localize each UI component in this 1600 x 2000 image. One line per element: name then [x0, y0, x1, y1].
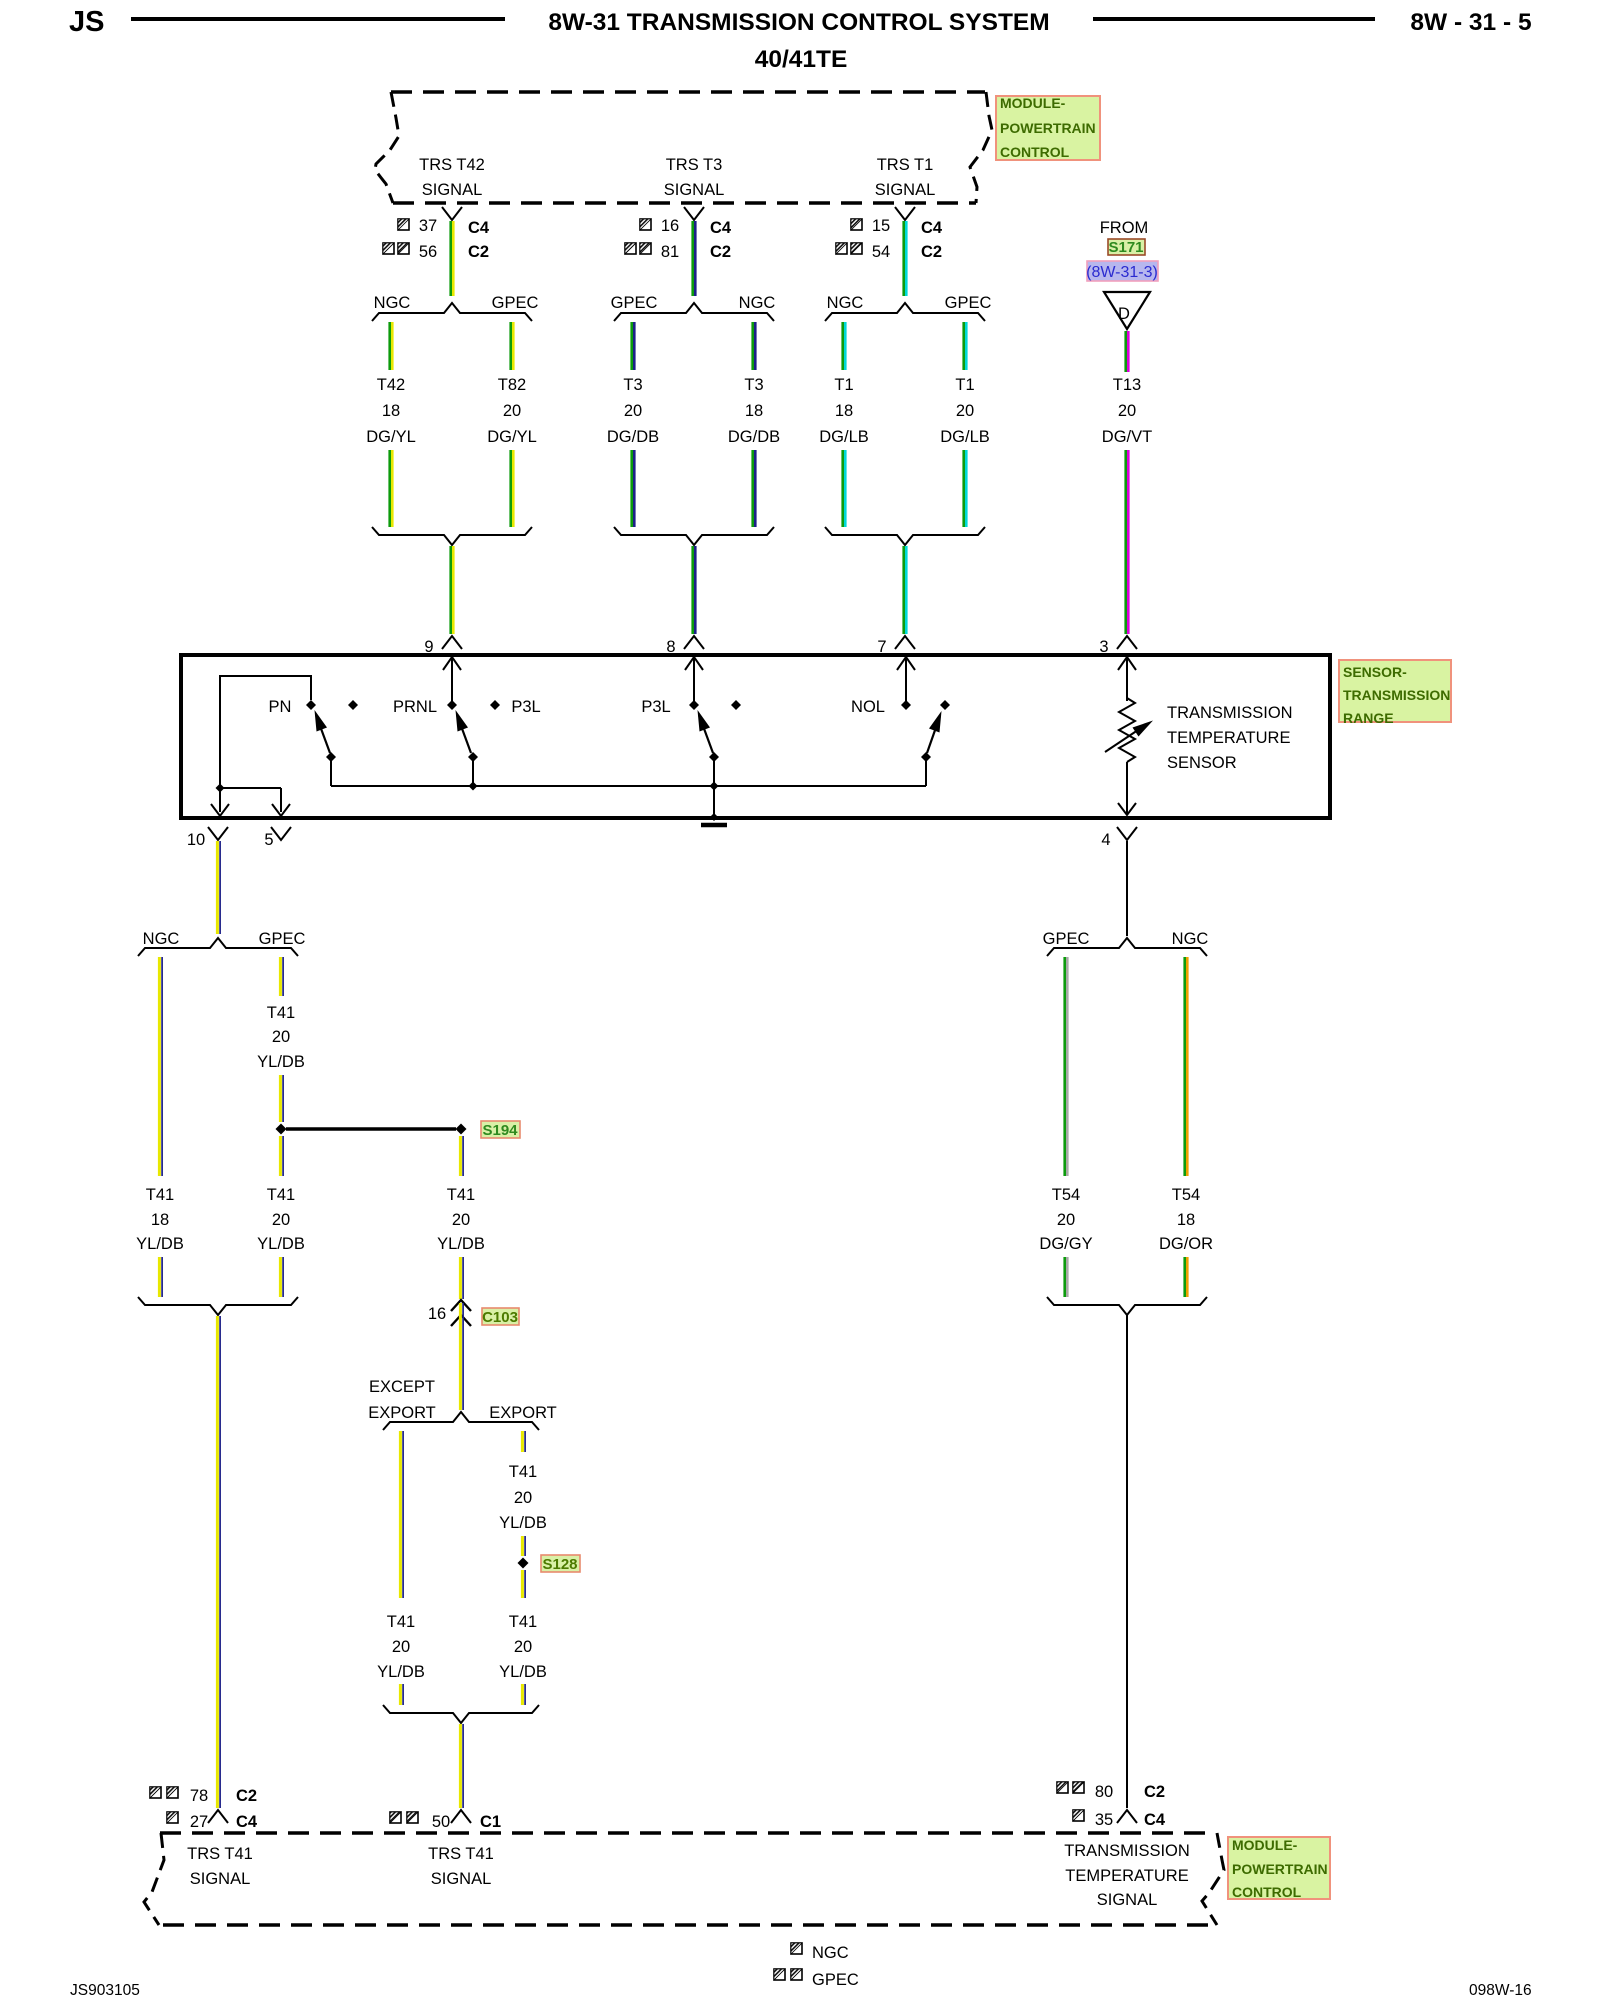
switch PN	[269, 698, 336, 786]
svg-text:DG/OR: DG/OR	[1159, 1235, 1213, 1253]
pin 37 C4 connector	[398, 207, 490, 237]
svg-text:C4: C4	[710, 219, 732, 237]
svg-text:GPEC: GPEC	[945, 294, 992, 312]
svg-text:S128: S128	[542, 1556, 577, 1573]
node junction diamond at exit split	[216, 784, 225, 793]
value label T41 20 YL/DB	[257, 1186, 305, 1253]
svg-text:P3L: P3L	[641, 698, 670, 716]
value label T41 18 YL/DB	[136, 1186, 184, 1253]
svg-text:D: D	[1118, 305, 1130, 323]
svg-text:T41: T41	[447, 1186, 475, 1204]
wire to sensor pin 7	[904, 546, 907, 634]
svg-text:SENSOR: SENSOR	[1167, 754, 1237, 772]
svg-text:DG/YL: DG/YL	[366, 428, 416, 446]
svg-text:T3: T3	[623, 376, 642, 394]
svg-text:T41: T41	[267, 1186, 295, 1204]
wire GPEC lower stub	[280, 1257, 283, 1297]
value label T13 20 DG/VT	[1102, 376, 1152, 446]
pin 78 C2 connector	[150, 1787, 257, 1805]
wire T1 18 DG/LB lower	[843, 450, 846, 527]
node merge brace column TRS T1	[825, 527, 985, 545]
pin 54 C2 connector	[836, 243, 942, 261]
wire T13 20 DG/VT upper	[1126, 331, 1129, 372]
svg-text:S171: S171	[1108, 239, 1143, 256]
svg-text:TRS T41: TRS T41	[187, 1845, 253, 1863]
svg-text:TRS T41: TRS T41	[428, 1845, 494, 1863]
svg-text:JS903105: JS903105	[70, 1982, 140, 1999]
svg-text:GPEC: GPEC	[259, 930, 306, 948]
wire T42 18 DG/YL upper	[390, 322, 393, 370]
value label T41 20 YL/DB (S194 branch)	[437, 1186, 485, 1253]
wire below S194 left branch	[280, 1136, 283, 1176]
connector C103 pin 16	[428, 1300, 519, 1326]
wire TRS T42 stem	[451, 221, 454, 296]
wire S194 right branch	[460, 1136, 463, 1176]
svg-text:DG/DB: DG/DB	[607, 428, 659, 446]
pin 8 sensor connector	[666, 636, 704, 656]
node (8W-31-3) reference	[1086, 261, 1158, 281]
node TRS T41 SIGNAL (left)	[187, 1845, 253, 1888]
node PN alternate contact	[348, 700, 358, 710]
wire except-export stub	[400, 1684, 403, 1705]
node split brace NGC/GPEC	[372, 294, 538, 321]
pin 50 C1 connector	[390, 1810, 501, 1831]
svg-text:20: 20	[1118, 402, 1136, 420]
svg-text:DG/YL: DG/YL	[487, 428, 537, 446]
svg-text:T41: T41	[267, 1004, 295, 1022]
wire T3 18 DG/DB upper	[753, 322, 756, 370]
wire DG/OR stub	[1185, 1257, 1188, 1297]
svg-text:C2: C2	[710, 243, 731, 261]
wire pin4 to GPEC/NGC split	[1126, 841, 1128, 936]
svg-text:8W - 31 - 5: 8W - 31 - 5	[1410, 9, 1531, 36]
svg-text:TRS T3: TRS T3	[666, 156, 723, 174]
label MODULE-POWERTRAIN CONTROL (bottom)	[1228, 1837, 1330, 1900]
svg-text:PN: PN	[269, 698, 292, 716]
wire below S128	[522, 1570, 525, 1598]
svg-text:20: 20	[514, 1638, 532, 1656]
node split brace NGC/GPEC (left)	[138, 930, 305, 956]
svg-text:C4: C4	[921, 219, 943, 237]
svg-text:TRS T42: TRS T42	[419, 156, 485, 174]
svg-text:SIGNAL: SIGNAL	[190, 1870, 251, 1888]
svg-text:MODULE-: MODULE-	[1000, 95, 1066, 111]
svg-text:YL/DB: YL/DB	[257, 1053, 305, 1071]
svg-text:20: 20	[624, 402, 642, 420]
svg-text:20: 20	[503, 402, 521, 420]
svg-text:T54: T54	[1052, 1186, 1080, 1204]
wire TRS T1 stem	[904, 221, 907, 296]
pin 4 connector	[1101, 827, 1137, 849]
node TRS T1 SIGNAL label	[875, 156, 936, 199]
node split brace EXCEPT EXPORT / EXPORT	[368, 1378, 557, 1430]
svg-text:NGC: NGC	[739, 294, 776, 312]
switch PRNL (pin 9)	[393, 657, 478, 791]
svg-text:TEMPERATURE: TEMPERATURE	[1167, 729, 1290, 747]
svg-text:16: 16	[661, 217, 679, 235]
wire NGC lower stub	[159, 1257, 162, 1297]
svg-text:GPEC: GPEC	[611, 294, 658, 312]
svg-text:15: 15	[872, 217, 890, 235]
svg-text:T41: T41	[146, 1186, 174, 1204]
wire T54 18 DG/OR long	[1185, 957, 1188, 1176]
splice S194	[276, 1121, 521, 1139]
svg-text:C2: C2	[236, 1787, 257, 1805]
wire C103 to export split	[460, 1303, 463, 1410]
svg-text:DG/VT: DG/VT	[1102, 428, 1152, 446]
svg-text:YL/DB: YL/DB	[377, 1663, 425, 1681]
value label T1 18 DG/LB	[819, 376, 869, 446]
node TRANSMISSION TEMPERATURE SIGNAL	[1064, 1842, 1190, 1909]
svg-text:YL/DB: YL/DB	[499, 1514, 547, 1532]
svg-text:GPEC: GPEC	[812, 1971, 859, 1989]
svg-text:T1: T1	[955, 376, 974, 394]
svg-text:POWERTRAIN: POWERTRAIN	[1232, 1861, 1328, 1877]
pin 81 C2 connector	[625, 243, 731, 261]
svg-text:MODULE-: MODULE-	[1232, 1837, 1298, 1853]
wire T1 18 DG/LB upper	[843, 322, 846, 370]
svg-text:C2: C2	[1144, 1783, 1165, 1801]
svg-text:56: 56	[419, 243, 437, 261]
svg-text:C103: C103	[482, 1309, 518, 1326]
svg-text:10: 10	[187, 831, 205, 849]
node merge brace column TRS T42	[372, 527, 532, 545]
svg-text:T82: T82	[498, 376, 526, 394]
svg-text:18: 18	[1177, 1211, 1195, 1229]
module-powertrain control (top) dashed outline	[375, 92, 992, 203]
svg-text:T41: T41	[509, 1613, 537, 1631]
splice S128	[518, 1555, 581, 1573]
svg-text:EXPORT: EXPORT	[368, 1404, 436, 1422]
node P3L alternate contact	[731, 700, 741, 710]
svg-text:20: 20	[392, 1638, 410, 1656]
node TRS T41 SIGNAL (middle)	[428, 1845, 494, 1888]
svg-text:SIGNAL: SIGNAL	[875, 181, 936, 199]
svg-text:35: 35	[1095, 1811, 1113, 1829]
value label T54 20 DG/GY	[1039, 1186, 1092, 1253]
svg-text:20: 20	[452, 1211, 470, 1229]
svg-text:EXPORT: EXPORT	[489, 1404, 557, 1422]
svg-text:SENSOR-: SENSOR-	[1343, 664, 1407, 680]
legend NGC connector key	[791, 1943, 849, 1962]
wire T42 18 DG/YL lower	[390, 450, 393, 527]
node D triangle off-page connector	[1104, 292, 1150, 329]
svg-text:T13: T13	[1113, 376, 1141, 394]
wire export to splice S128	[522, 1536, 525, 1556]
wire T3 20 DG/DB lower	[632, 450, 635, 527]
pin 80 C2 connector	[1057, 1782, 1165, 1801]
svg-text:SIGNAL: SIGNAL	[1097, 1891, 1158, 1909]
wire TRS T41 signal to pin 50	[460, 1724, 463, 1808]
pin 35 C4 connector	[1073, 1810, 1166, 1829]
svg-text:SIGNAL: SIGNAL	[422, 181, 483, 199]
svg-text:C1: C1	[480, 1813, 501, 1831]
wire T54 20 DG/GY long	[1065, 957, 1068, 1176]
svg-text:NGC: NGC	[374, 294, 411, 312]
svg-text:50: 50	[432, 1813, 450, 1831]
svg-text:20: 20	[956, 402, 974, 420]
svg-text:C2: C2	[468, 243, 489, 261]
svg-text:20: 20	[272, 1211, 290, 1229]
svg-text:RANGE: RANGE	[1343, 710, 1394, 726]
label TRANSMISSION TEMPERATURE SENSOR	[1167, 704, 1293, 772]
exit arrows to pins 10 and 5	[211, 788, 290, 816]
svg-text:54: 54	[872, 243, 890, 261]
wire export stub	[522, 1684, 525, 1705]
wire temperature signal to pin 35	[1126, 1315, 1128, 1808]
wire T3 18 DG/DB lower	[753, 450, 756, 527]
node merge brace column TRS T3	[614, 527, 774, 545]
wire T41 18 YL/DB (NGC) long	[159, 957, 162, 1176]
svg-text:TRS T1: TRS T1	[877, 156, 934, 174]
node split brace NGC/GPEC	[825, 294, 991, 321]
svg-text:T41: T41	[509, 1463, 537, 1481]
pin 56 C2 connector	[383, 243, 489, 261]
node FROM S171 reference	[1100, 219, 1149, 256]
svg-text:NGC: NGC	[143, 930, 180, 948]
svg-text:18: 18	[382, 402, 400, 420]
switch P3L (pin 8)	[641, 657, 719, 791]
svg-text:TEMPERATURE: TEMPERATURE	[1065, 1867, 1188, 1885]
value label T3 18 DG/DB	[728, 376, 780, 446]
svg-text:16: 16	[428, 1305, 446, 1323]
wire TRS T41 signal to pin 27	[217, 1316, 220, 1808]
svg-text:80: 80	[1095, 1783, 1113, 1801]
svg-text:YL/DB: YL/DB	[437, 1235, 485, 1253]
wire DG/GY stub	[1065, 1257, 1068, 1297]
node P3L contact label/diamond	[490, 698, 541, 716]
svg-text:TRANSMISSION: TRANSMISSION	[1167, 704, 1293, 722]
svg-text:YL/DB: YL/DB	[257, 1235, 305, 1253]
header rule left	[131, 17, 505, 21]
svg-text:T42: T42	[377, 376, 405, 394]
pin 5 connector	[264, 827, 291, 849]
wire TRS T3 stem	[693, 221, 696, 296]
node merge brace (left group)	[138, 1297, 298, 1315]
wire GPEC T41 to splice S194	[280, 1075, 283, 1122]
node merge brace (export group)	[383, 1705, 539, 1723]
svg-text:20: 20	[272, 1028, 290, 1046]
value label T54 18 DG/OR	[1159, 1186, 1213, 1253]
wire to sensor pin 8	[693, 546, 696, 634]
svg-text:FROM: FROM	[1100, 219, 1149, 237]
svg-text:P3L: P3L	[511, 698, 540, 716]
wire common bus	[331, 785, 926, 787]
sensor-transmission range box outline	[181, 655, 1330, 818]
svg-text:18: 18	[151, 1211, 169, 1229]
value label T1 20 DG/LB	[940, 376, 990, 446]
value label T82 20 DG/YL	[487, 376, 537, 446]
svg-text:T3: T3	[744, 376, 763, 394]
svg-text:81: 81	[661, 243, 679, 261]
wire PN contact feed (rectangle path)	[220, 676, 311, 788]
wire to sensor pin 9	[451, 546, 454, 634]
node split brace GPEC/NGC	[611, 294, 776, 321]
svg-text:NGC: NGC	[827, 294, 864, 312]
svg-text:NGC: NGC	[812, 1944, 849, 1962]
svg-text:PRNL: PRNL	[393, 698, 437, 716]
node merge brace (right group)	[1047, 1297, 1207, 1315]
node TRS T3 SIGNAL label	[664, 156, 725, 199]
svg-text:DG/GY: DG/GY	[1039, 1235, 1092, 1253]
ground case ground stub	[701, 786, 727, 825]
value label T41 20 YL/DB (GPEC)	[257, 1004, 305, 1071]
wire to connector C103	[460, 1257, 463, 1299]
svg-text:8W-31 TRANSMISSION CONTROL SYS: 8W-31 TRANSMISSION CONTROL SYSTEM	[548, 9, 1049, 36]
svg-text:SIGNAL: SIGNAL	[664, 181, 725, 199]
svg-text:78: 78	[190, 1787, 208, 1805]
label SENSOR-TRANSMISSION RANGE	[1339, 660, 1451, 726]
svg-text:JS: JS	[69, 6, 104, 38]
legend GPEC connector key	[774, 1969, 859, 1989]
wire pin10 to NGC/GPEC split	[217, 841, 220, 934]
svg-text:37: 37	[419, 217, 437, 235]
svg-text:098W-16: 098W-16	[1469, 1982, 1532, 1999]
pin 15 C4 connector	[851, 207, 943, 237]
svg-text:GPEC: GPEC	[492, 294, 539, 312]
wire export T41 upper	[522, 1431, 525, 1452]
svg-text:TRANSMISSION: TRANSMISSION	[1064, 1842, 1190, 1860]
svg-text:27: 27	[190, 1813, 208, 1831]
pin 27 C4 connector	[167, 1810, 258, 1831]
wire T1 20 DG/LB upper	[964, 322, 967, 370]
wire T13 20 DG/VT lower	[1126, 450, 1129, 634]
pin 16 C4 connector	[640, 207, 732, 237]
header rule right	[1093, 17, 1375, 21]
svg-text:GPEC: GPEC	[1043, 930, 1090, 948]
svg-text:CONTROL: CONTROL	[1000, 144, 1070, 160]
svg-text:EXCEPT: EXCEPT	[369, 1378, 435, 1396]
svg-text:NGC: NGC	[1172, 930, 1209, 948]
wire T82 20 DG/YL upper	[511, 322, 514, 370]
svg-text:YL/DB: YL/DB	[499, 1663, 547, 1681]
svg-text:C4: C4	[236, 1813, 258, 1831]
wire except-export T41 long	[400, 1431, 403, 1598]
svg-text:20: 20	[1057, 1211, 1075, 1229]
svg-text:S194: S194	[482, 1122, 518, 1139]
svg-text:18: 18	[745, 402, 763, 420]
svg-text:T54: T54	[1172, 1186, 1200, 1204]
svg-text:40/41TE: 40/41TE	[755, 46, 848, 73]
svg-text:C4: C4	[468, 219, 490, 237]
value label T42 18 DG/YL	[366, 376, 416, 446]
svg-text:YL/DB: YL/DB	[136, 1235, 184, 1253]
wire T3 20 DG/DB upper	[632, 322, 635, 370]
svg-text:20: 20	[514, 1489, 532, 1507]
value label T3 20 DG/DB	[607, 376, 659, 446]
sensor transmission temperature sensor (thermistor)	[1105, 657, 1153, 815]
node TRS T42 SIGNAL label	[419, 156, 485, 199]
value label T41 20 YL/DB (export lower)	[499, 1613, 547, 1681]
svg-text:TRANSMISSION: TRANSMISSION	[1343, 687, 1450, 703]
pin 3 sensor connector	[1099, 636, 1137, 656]
value label T41 20 YL/DB (export)	[499, 1463, 547, 1532]
svg-text:T1: T1	[834, 376, 853, 394]
svg-text:CONTROL: CONTROL	[1232, 1884, 1302, 1900]
svg-text:C4: C4	[1144, 1811, 1166, 1829]
switch NOL (pin 7)	[851, 657, 950, 786]
svg-text:DG/LB: DG/LB	[940, 428, 990, 446]
pin 9 sensor connector	[424, 636, 462, 656]
wire T1 20 DG/LB lower	[964, 450, 967, 527]
pin 7 sensor connector	[877, 636, 915, 656]
value label T41 20 YL/DB (except export)	[377, 1613, 425, 1681]
label MODULE-POWERTRAIN CONTROL (top)	[996, 95, 1100, 160]
wire T41 20 YL/DB (GPEC) upper	[280, 957, 283, 996]
wire T82 20 DG/YL lower	[511, 450, 514, 527]
svg-text:NOL: NOL	[851, 698, 885, 716]
svg-text:C2: C2	[921, 243, 942, 261]
svg-text:(8W-31-3): (8W-31-3)	[1086, 264, 1158, 281]
svg-text:SIGNAL: SIGNAL	[431, 1870, 492, 1888]
svg-text:4: 4	[1101, 831, 1110, 849]
module-powertrain control (bottom) dashed outline	[144, 1833, 1224, 1925]
node split brace GPEC/NGC (right)	[1043, 930, 1209, 956]
svg-text:T41: T41	[387, 1613, 415, 1631]
pin 10 connector	[187, 827, 228, 849]
svg-text:5: 5	[264, 831, 273, 849]
svg-text:18: 18	[835, 402, 853, 420]
svg-text:DG/LB: DG/LB	[819, 428, 869, 446]
svg-text:POWERTRAIN: POWERTRAIN	[1000, 120, 1096, 136]
svg-text:DG/DB: DG/DB	[728, 428, 780, 446]
